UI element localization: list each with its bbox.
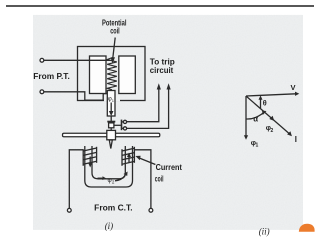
svg-text:(ii): (ii)	[259, 227, 270, 237]
svg-text:circuit: circuit	[150, 66, 174, 75]
svg-text:(i): (i)	[105, 221, 114, 231]
svg-text:From C.T.: From C.T.	[94, 204, 132, 213]
svg-text:V: V	[291, 83, 296, 92]
svg-text:Current: Current	[156, 163, 183, 172]
svg-text:I: I	[295, 135, 297, 144]
svg-text:coil: coil	[155, 174, 164, 183]
svg-text:2: 2	[112, 180, 115, 185]
svg-text:θ: θ	[263, 98, 267, 107]
svg-text:coil: coil	[110, 26, 120, 35]
svg-text:From P.T.: From P.T.	[33, 72, 70, 81]
svg-text:1: 1	[256, 143, 259, 149]
svg-text:α: α	[253, 114, 258, 123]
svg-text:2: 2	[271, 128, 274, 134]
